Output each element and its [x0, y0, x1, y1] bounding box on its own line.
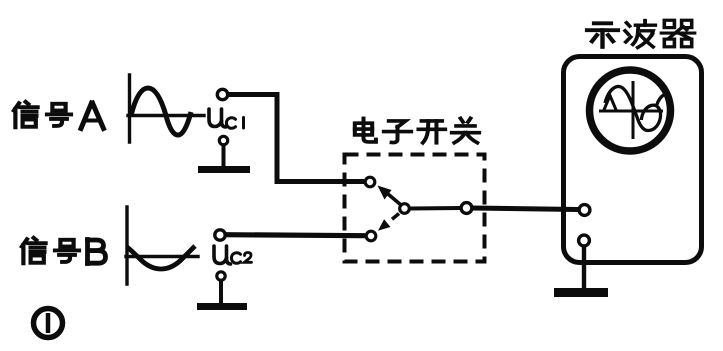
switch contact bottom	[366, 231, 376, 241]
switch contact top	[365, 177, 375, 187]
oscilloscope screen circle	[590, 70, 671, 151]
oscilloscope screen trace 2 tail	[657, 95, 665, 106]
figure number ①	[34, 309, 63, 338]
terminal u_C1	[217, 89, 227, 99]
switch output node	[461, 203, 472, 214]
wire u_C1 node to ground A	[222, 145, 226, 167]
oscilloscope screen trace 2 (loop)	[641, 105, 660, 130]
label u_C2	[214, 246, 252, 264]
oscilloscope input terminal (top)	[579, 205, 590, 216]
oscilloscope ground terminal (bottom)	[579, 235, 590, 246]
label 电子开关	[355, 118, 479, 142]
waveform source A sine	[131, 88, 191, 135]
label 示波器	[587, 20, 694, 47]
electronic switch dashed box	[345, 155, 485, 262]
oscilloscope screen trace 3 (left peak)	[604, 96, 617, 112]
label 信号A	[14, 102, 104, 129]
switch pivot node	[400, 204, 410, 214]
node circle above ground A	[219, 136, 227, 144]
oscilloscope screen trace 1 (sine)	[605, 87, 648, 131]
label u_C1	[209, 109, 244, 128]
waveform source B curve	[127, 246, 195, 269]
wire u_C1 terminal to switch top contact	[228, 95, 364, 182]
terminal u_C2	[215, 230, 225, 240]
wire ground terminal to ground	[582, 246, 586, 289]
wire switch output to oscilloscope input	[472, 208, 578, 210]
node circle above ground B	[217, 272, 225, 280]
ground (oscilloscope)	[554, 288, 608, 297]
oscilloscope body U1	[564, 57, 702, 263]
oscilloscope screen axes	[599, 81, 663, 139]
waveform source A axes	[128, 75, 204, 142]
switch wiper arm to top contact (solid with arrowhead)	[378, 186, 402, 206]
wire u_C2 terminal to switch bottom contact	[225, 235, 365, 236]
wire u_C2 node to ground B	[219, 280, 223, 304]
switch wiper arm to bottom contact (dashed with arrowhead)	[378, 214, 399, 231]
wire pivot to output node	[410, 206, 461, 211]
waveform source B axes	[126, 207, 198, 284]
ground (signal B)	[197, 303, 247, 310]
label 信号B	[22, 238, 106, 264]
ground (signal A)	[198, 166, 250, 173]
